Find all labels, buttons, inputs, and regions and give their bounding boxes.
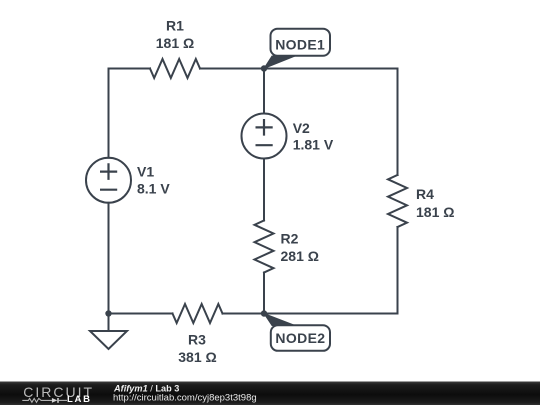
junction dot NODE1 [261,65,267,71]
svg-text:V1: V1 [137,163,154,179]
svg-text:NODE1: NODE1 [275,37,325,53]
svg-text:181 Ω: 181 Ω [156,35,194,51]
wire right vertical (top corner to R4) [397,69,399,176]
svg-text:181 Ω: 181 Ω [416,204,454,220]
svg-text:NODE2: NODE2 [275,330,325,346]
svg-text:V2: V2 [293,120,310,136]
wire top-left horizontal (corner to R1) [109,68,151,70]
svg-text:281 Ω: 281 Ω [281,248,319,264]
wire middle vertical (R2 to NODE2) [263,273,265,314]
svg-text:8.1 V: 8.1 V [137,180,170,196]
voltage source V1 [86,158,131,203]
wire middle vertical (NODE1 to V2) [263,69,265,114]
svg-text:http://circuitlab.com/cyj8ep3t: http://circuitlab.com/cyj8ep3t3t98g [113,393,257,404]
wire bottom (R3 to NODE2) [223,313,265,315]
svg-text:R1: R1 [166,17,184,33]
svg-text:R3: R3 [188,331,206,347]
svg-text:381 Ω: 381 Ω [178,349,216,365]
wire middle vertical (V2 to R2) [263,159,265,221]
svg-text:R4: R4 [416,186,434,202]
junction dot NODE2 [261,310,267,316]
svg-text:R2: R2 [281,231,299,247]
footer bar [0,382,540,405]
resistor R1 [150,59,200,78]
resistor R2 [255,221,274,273]
CircuitLab logo [22,384,94,405]
wire left vertical (corner to V1) [108,69,110,158]
node NODE2 callout [264,314,330,351]
resistor R4 [388,175,407,227]
wire left vertical (V1 to ground node) [108,203,110,331]
voltage source V2 [242,114,287,159]
resistor R3 [173,304,223,323]
node NODE1 callout [264,29,330,69]
ground [90,331,127,349]
wire bottom (NODE2 to right corner) [264,313,398,315]
wire right vertical (R4 to bottom corner) [397,227,399,314]
svg-text:1.81 V: 1.81 V [293,137,334,153]
junction dot ground [105,310,111,316]
wire top horizontal (R1 to right corner) [200,68,398,70]
wire bottom (ground node to R3) [109,313,173,315]
svg-text:LAB: LAB [67,394,92,405]
